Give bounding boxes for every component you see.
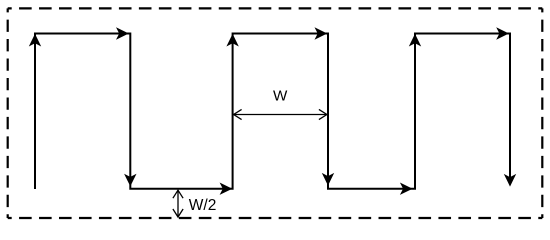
wire: serpentine coverage path xyxy=(35,34,510,190)
dimension arrow W/2 (vertical double-headed) xyxy=(173,190,183,217)
arrowhead right 1 xyxy=(116,27,129,39)
arrowhead up 1 xyxy=(29,34,41,47)
arrowhead right 3 xyxy=(315,27,328,39)
arrowhead up 3 xyxy=(409,34,421,47)
arrowhead right 2 xyxy=(220,183,233,195)
svg-text:W: W xyxy=(273,87,288,104)
arrowhead right 4 xyxy=(400,183,413,195)
dimension arrow W (horizontal double-headed) xyxy=(234,109,327,119)
arrowhead right 5 xyxy=(496,27,509,39)
arrowhead down 1 xyxy=(124,174,136,187)
arrowhead down 2 xyxy=(322,173,334,186)
arrowhead down 3 (path end) xyxy=(504,174,516,187)
svg-text:W/2: W/2 xyxy=(189,197,217,214)
arrowhead up 2 xyxy=(226,34,238,47)
